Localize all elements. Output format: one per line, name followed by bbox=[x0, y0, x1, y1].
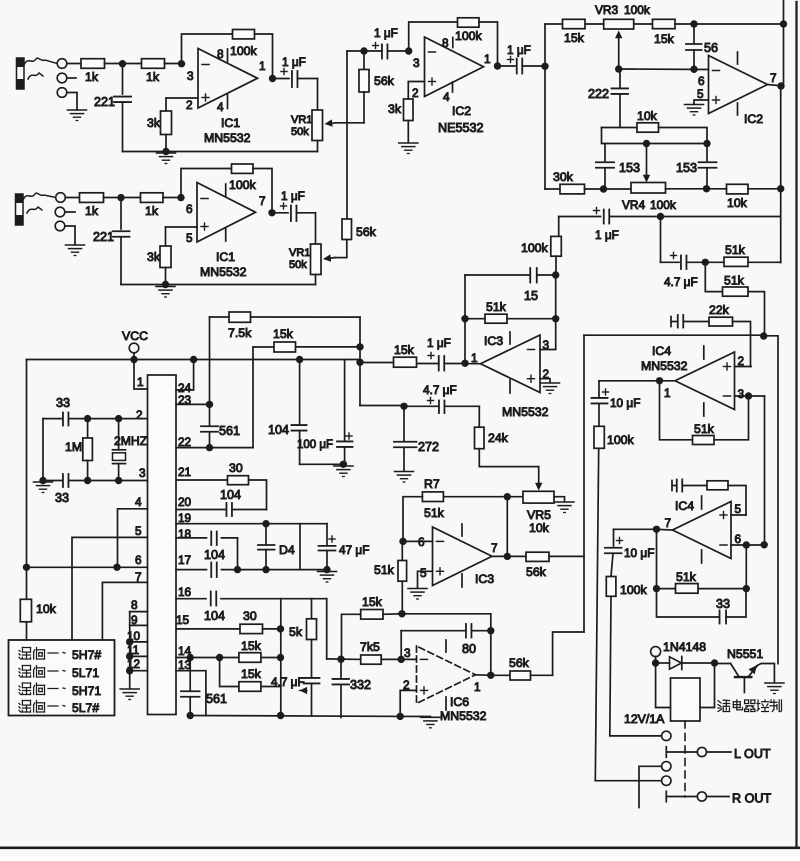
svg-text:3: 3 bbox=[543, 338, 550, 352]
terminal circle tip bbox=[57, 59, 67, 69]
svg-text:IC2: IC2 bbox=[744, 112, 763, 126]
resistor 30 (pin15) bbox=[240, 624, 263, 633]
svg-text:10k: 10k bbox=[637, 109, 658, 123]
potentiometer VR5 10k bbox=[523, 491, 554, 503]
node xtal top bbox=[115, 415, 122, 422]
wire bbox=[255, 34, 273, 79]
svg-text:VR3: VR3 bbox=[595, 3, 619, 17]
svg-text:153: 153 bbox=[676, 161, 697, 175]
terminal circle ring 2 bbox=[55, 207, 65, 217]
wire L-chain long vertical bbox=[610, 596, 662, 736]
svg-text:3: 3 bbox=[413, 56, 420, 70]
wire bbox=[263, 628, 281, 630]
arrow polarity bbox=[300, 687, 308, 694]
svg-text:7: 7 bbox=[259, 194, 266, 208]
feedback wire IC1a bbox=[182, 34, 233, 64]
wire bus bottom bbox=[553, 632, 584, 675]
resistor 51k (IC3a fb) bbox=[465, 318, 485, 320]
capacitor 56 bbox=[693, 24, 695, 44]
svg-text:56k: 56k bbox=[509, 656, 530, 670]
svg-text:1 μF: 1 μF bbox=[374, 26, 398, 40]
svg-text:104: 104 bbox=[220, 488, 241, 502]
resistor 100k (IC3a input) bbox=[551, 236, 562, 256]
svg-text:1 μF: 1 μF bbox=[282, 55, 306, 69]
svg-text:4.7 μF: 4.7 μF bbox=[664, 275, 698, 289]
wire 222 to 10k bbox=[602, 127, 638, 129]
node 7k5 left bbox=[337, 656, 344, 663]
wire 7.5k vertical bbox=[209, 317, 211, 425]
wire ch2 ground rail bbox=[121, 284, 316, 286]
node pin4 join bbox=[113, 564, 120, 571]
wire fb left bbox=[660, 381, 693, 440]
wire pin7 bbox=[102, 582, 147, 640]
svg-text:23: 23 bbox=[178, 393, 192, 407]
resistor 3k (ch1 to gnd) bbox=[165, 98, 167, 111]
resistor 100k (IC1b feedback) bbox=[232, 164, 254, 173]
op-amp IC4 (a) left-pointing bbox=[675, 352, 735, 410]
svg-text:MN5532: MN5532 bbox=[200, 265, 247, 279]
wire IC2b output bbox=[768, 85, 782, 86]
resistor 1M bbox=[87, 419, 89, 438]
svg-text:51k: 51k bbox=[724, 274, 745, 288]
node 51k row L bbox=[653, 585, 660, 592]
svg-text:7: 7 bbox=[135, 570, 142, 584]
svg-text:1 μF: 1 μF bbox=[427, 336, 451, 350]
svg-text:104: 104 bbox=[204, 548, 225, 562]
wire mix left bbox=[347, 50, 364, 52]
svg-text:5: 5 bbox=[135, 524, 142, 538]
wire pin21 bbox=[176, 479, 228, 481]
capacitor D4 bbox=[265, 524, 267, 545]
node rail 561 bbox=[187, 712, 194, 719]
svg-text:7: 7 bbox=[770, 71, 777, 85]
node 153R top bbox=[703, 140, 710, 147]
node mix2 b bbox=[356, 359, 363, 366]
node 51k pair bbox=[702, 259, 709, 266]
wire fb riser bbox=[506, 497, 508, 557]
wire corner bbox=[602, 128, 708, 144]
node D4 bottom bbox=[262, 566, 269, 573]
svg-text:56k: 56k bbox=[356, 225, 377, 239]
wire IC1a +input bbox=[166, 97, 198, 99]
svg-text:221: 221 bbox=[93, 230, 114, 244]
resistor 1k (ch2 series b) bbox=[121, 197, 141, 199]
svg-text:1 μF: 1 μF bbox=[595, 228, 619, 242]
wire ring stub bbox=[67, 77, 76, 79]
wire fb right riser bbox=[490, 631, 492, 676]
potentiometer VR3 100k bbox=[604, 19, 634, 29]
wire bbox=[261, 686, 281, 688]
svg-text:33: 33 bbox=[56, 396, 70, 410]
wire pin21 loop bbox=[249, 480, 267, 510]
wire right vertical (feedback bus) bbox=[780, 86, 782, 263]
wire VCC stem bbox=[133, 353, 135, 360]
wire bbox=[104, 197, 122, 199]
svg-text:3k: 3k bbox=[147, 116, 161, 130]
wire bbox=[555, 256, 557, 275]
wire R7 right bbox=[443, 496, 507, 498]
wire pin5 bbox=[72, 537, 148, 640]
ground (IC3a pin2) bbox=[541, 383, 560, 394]
wire VR1 bottom bbox=[317, 141, 319, 152]
svg-text:D4: D4 bbox=[279, 543, 295, 557]
wire vertical to 56k ch2 bbox=[346, 51, 348, 219]
wire IC4a pin3 node bbox=[735, 395, 749, 397]
tick IC3b top bbox=[461, 524, 463, 536]
diode 1N4148 bbox=[656, 662, 670, 664]
resistor 3k (IC2a) bbox=[404, 99, 414, 121]
node plus-line right bbox=[760, 332, 767, 339]
svg-text:56k: 56k bbox=[374, 74, 395, 88]
svg-text:4: 4 bbox=[443, 90, 450, 104]
node IC4a out bbox=[656, 377, 663, 384]
node ch2 rail bbox=[162, 281, 169, 288]
node 153R bottom bbox=[703, 185, 710, 192]
jack tip squiggle wire bbox=[24, 58, 57, 65]
wire bottom rail bbox=[190, 716, 430, 717]
wire 15k left bbox=[342, 614, 361, 659]
svg-text:R7: R7 bbox=[424, 477, 440, 491]
wire pin8-12 bus bbox=[129, 612, 131, 688]
wire to VR1 ch2 bbox=[315, 213, 317, 244]
svg-text:3k: 3k bbox=[147, 250, 161, 264]
terminal circle sleeve 2 bbox=[55, 221, 65, 231]
resistor 22k bbox=[709, 317, 733, 326]
tick IC3b bottom bbox=[461, 574, 463, 587]
op-amp IC6 dashed bbox=[417, 646, 476, 704]
wire bbox=[682, 662, 715, 664]
capacitor 10uF (IC4b out) bbox=[613, 529, 615, 546]
resistor 56k (ch2 mix) bbox=[342, 219, 352, 240]
svg-text:22k: 22k bbox=[709, 303, 730, 317]
svg-text:561: 561 bbox=[219, 424, 240, 438]
svg-text:8: 8 bbox=[131, 598, 138, 612]
svg-text:MN5532: MN5532 bbox=[440, 709, 487, 723]
svg-text:80: 80 bbox=[462, 642, 476, 656]
resistor 15k (tone a) bbox=[563, 19, 586, 28]
tick IC6 bottom bbox=[445, 697, 447, 710]
wire pin17 row bbox=[222, 569, 328, 571]
svg-text:NE5532: NE5532 bbox=[438, 121, 484, 135]
wire bbox=[698, 588, 746, 590]
svg-text:1k: 1k bbox=[145, 204, 159, 218]
wire VCC rail bbox=[27, 359, 360, 361]
wire 3k to gnd bbox=[407, 121, 409, 143]
node rail IC6 bbox=[397, 713, 404, 720]
op-amp IC2 (b) bbox=[709, 56, 768, 114]
wire 56k out bbox=[531, 674, 553, 676]
svg-text:33: 33 bbox=[55, 491, 69, 505]
capacitor 104 (pin20) bbox=[234, 509, 267, 511]
wire pin24 bbox=[176, 360, 194, 391]
wire 15k b bbox=[220, 658, 239, 687]
node IC2a output bbox=[494, 62, 501, 69]
jack ring squiggle wire bbox=[28, 73, 43, 79]
svg-text:47 μF: 47 μF bbox=[339, 543, 369, 557]
wire 7.5k to mix2 bbox=[251, 316, 361, 318]
resistor 51k (upper) bbox=[705, 261, 724, 263]
scan mark top right bbox=[783, 0, 785, 24]
svg-text:10k: 10k bbox=[727, 196, 748, 210]
svg-text:VR4: VR4 bbox=[622, 198, 646, 212]
wire IC4b pin5 bbox=[731, 514, 746, 516]
svg-text:51k: 51k bbox=[424, 506, 445, 520]
resistor 30 (pin21) bbox=[228, 476, 249, 485]
terminal circle ring bbox=[57, 73, 67, 83]
svg-text:104: 104 bbox=[204, 609, 225, 623]
wire IC2b - input row bbox=[619, 68, 709, 71]
node 561b bbox=[187, 654, 194, 661]
wire 24k to VR5 wiper bbox=[479, 449, 538, 485]
resistor 15k (IC3a in) bbox=[394, 357, 417, 367]
wire bbox=[707, 796, 730, 798]
svg-text:5: 5 bbox=[420, 566, 427, 580]
node mix X1 bbox=[360, 47, 367, 54]
node 1M bottom bbox=[84, 477, 91, 484]
wire sleeve to ground bbox=[67, 93, 77, 111]
node mix2 a bbox=[356, 343, 363, 350]
op-amp IC1 (a) bbox=[198, 49, 258, 109]
wire 15k row bbox=[253, 346, 274, 348]
svg-text:56k: 56k bbox=[526, 565, 547, 579]
svg-text:222: 222 bbox=[588, 87, 609, 101]
capacitor 1uF (IC3a out) bbox=[428, 355, 434, 357]
wire bbox=[659, 128, 708, 144]
ground (pin bus) bbox=[120, 689, 139, 700]
capacitor 4.7uF (mid) bbox=[428, 400, 434, 402]
svg-text:104: 104 bbox=[268, 423, 289, 437]
wire R7 left bbox=[403, 497, 422, 542]
svg-text:51k: 51k bbox=[486, 300, 507, 314]
node ch2-A bbox=[117, 194, 124, 201]
wire R out row bbox=[666, 796, 697, 798]
wire IC3b pin5 gnd bbox=[418, 571, 433, 588]
node diode right bbox=[711, 659, 718, 666]
svg-text:R OUT: R OUT bbox=[732, 792, 771, 806]
feedback wire IC1b bbox=[181, 169, 232, 198]
relay coil box bbox=[671, 678, 701, 721]
node ch2-B (IC1b inverting input) bbox=[177, 194, 184, 201]
wire bbox=[748, 261, 781, 263]
wire bbox=[401, 658, 416, 660]
node fb right bbox=[777, 185, 784, 192]
wire IC3a +in gnd bbox=[540, 379, 550, 382]
svg-text:4: 4 bbox=[217, 100, 224, 114]
node IC1a output bbox=[269, 75, 276, 82]
svg-text:5L7#: 5L7# bbox=[72, 701, 99, 715]
capacitor 1uF (post tone) bbox=[594, 210, 600, 212]
resistor 1k (ch1 series a) bbox=[81, 59, 105, 69]
VR4 wiper stem bbox=[646, 144, 648, 177]
resistor 56k (ch1 mix) bbox=[363, 51, 365, 70]
svg-text:1: 1 bbox=[664, 386, 671, 400]
svg-text:100k: 100k bbox=[230, 44, 258, 58]
capacitor 33 (bottom) bbox=[43, 480, 62, 482]
svg-text:7.5k: 7.5k bbox=[228, 326, 252, 340]
pin12 stub bbox=[130, 670, 148, 672]
svg-text:33: 33 bbox=[716, 597, 730, 611]
capacitor 1uF (IC2a input) bbox=[373, 45, 379, 47]
contact R-arm tick bbox=[665, 791, 667, 801]
relay armature dashed bbox=[684, 721, 686, 797]
svg-text:1: 1 bbox=[474, 680, 481, 694]
VR1 ch1 wiper wire bbox=[336, 122, 364, 124]
wire pin1 bbox=[134, 360, 148, 390]
wire 4.7uF row bbox=[360, 405, 404, 407]
wire IC4a plus line bbox=[584, 334, 764, 336]
resistor 7k5 bbox=[327, 658, 361, 661]
terminal 12V bbox=[651, 647, 661, 657]
resistor 7.5k bbox=[229, 312, 251, 322]
wire bbox=[707, 188, 727, 190]
svg-text:VR1: VR1 bbox=[289, 247, 310, 259]
svg-text:22: 22 bbox=[178, 435, 191, 449]
ground (IC2a 3k) bbox=[399, 143, 418, 154]
node 15k row bbox=[398, 610, 405, 617]
svg-text:6: 6 bbox=[735, 532, 742, 546]
svg-text:3k: 3k bbox=[388, 102, 402, 116]
wire relay left bbox=[656, 663, 671, 708]
wire mix bus vertical bbox=[583, 335, 585, 632]
svg-text:100 μF: 100 μF bbox=[297, 439, 333, 451]
pin4 tick IC2a bbox=[452, 82, 454, 92]
wire 5k riser bbox=[311, 599, 313, 619]
wire pin14 bbox=[176, 657, 239, 659]
node 51k row left bbox=[461, 315, 468, 322]
wire pin22 bbox=[176, 447, 253, 449]
node VCC rail bbox=[130, 356, 137, 363]
node 51k row R bbox=[743, 585, 750, 592]
node ch1-A bbox=[119, 60, 126, 67]
ground (crystal) bbox=[34, 482, 53, 493]
tick IC4a bottom bbox=[703, 403, 705, 416]
resistor 15k (pin22) bbox=[274, 342, 296, 352]
node 153L bottom bbox=[600, 185, 607, 192]
resistor 100k (R-chain) bbox=[598, 404, 600, 427]
feedback wire IC2a bbox=[409, 22, 458, 51]
svg-text:1N4148: 1N4148 bbox=[663, 640, 706, 654]
wire bbox=[666, 188, 707, 190]
wire right drop vertical bbox=[280, 599, 282, 716]
wire IC2a +input bbox=[408, 82, 424, 100]
wire R-chain long vertical bbox=[595, 448, 598, 780]
wire IC1b +input bbox=[166, 226, 198, 228]
wire left long vertical bbox=[26, 360, 28, 600]
svg-text:5L71: 5L71 bbox=[72, 666, 99, 680]
svg-text:IC3: IC3 bbox=[484, 334, 503, 348]
capacitor 561 (pin14) bbox=[189, 658, 191, 691]
wire pin22 riser bbox=[252, 347, 254, 448]
wire bbox=[479, 22, 498, 66]
wire IC4b out riser bbox=[656, 529, 658, 588]
box reverb unit bbox=[9, 640, 115, 716]
node 4.7 branch bbox=[657, 213, 664, 220]
wire IC4b out row bbox=[657, 528, 673, 531]
wire 56k ch1 bottom bbox=[363, 92, 365, 123]
svg-text:332: 332 bbox=[350, 678, 371, 692]
svg-text:10 μF: 10 μF bbox=[610, 396, 640, 410]
node IC1b output bbox=[268, 209, 275, 216]
node IC2a in bbox=[405, 47, 412, 54]
wire pin15 bbox=[176, 628, 240, 630]
ground (VR5) bbox=[555, 502, 574, 513]
node IC3b minus bbox=[399, 538, 406, 545]
svg-text:IC6: IC6 bbox=[450, 695, 469, 709]
resistor 10k (left) bbox=[20, 599, 31, 622]
svg-text:21: 21 bbox=[178, 465, 191, 479]
svg-text:18: 18 bbox=[178, 527, 192, 541]
ground (filters) bbox=[334, 466, 353, 477]
pin tick bottom b bbox=[225, 229, 227, 242]
wire pin16 corner bbox=[326, 599, 328, 659]
resistor fb IC4b bbox=[707, 481, 728, 490]
op-amp IC3 (a) left-pointing bbox=[481, 335, 541, 393]
svg-text:30k: 30k bbox=[553, 170, 574, 184]
node tone-cap bbox=[541, 63, 548, 70]
node pin18 join bbox=[234, 566, 241, 573]
svg-text:10k: 10k bbox=[529, 521, 550, 535]
right border line bbox=[795, 2, 797, 847]
resistor 1k (ch1 series b) bbox=[123, 63, 142, 65]
capacitor 22k input cap bbox=[671, 321, 677, 323]
jack2 ring squiggle bbox=[27, 207, 42, 213]
svg-text:10k: 10k bbox=[36, 602, 57, 616]
wire bbox=[253, 169, 272, 213]
svg-text:51k: 51k bbox=[374, 563, 395, 577]
svg-text:1k: 1k bbox=[85, 204, 99, 218]
svg-text:50k: 50k bbox=[289, 259, 307, 271]
wire mix2 vertical bbox=[359, 317, 361, 405]
wire 51k down bbox=[401, 581, 403, 614]
resistor 1k (ch2 series a) bbox=[80, 193, 104, 203]
resistor 3k (ch2 to gnd) bbox=[165, 227, 167, 246]
wire 80 left bbox=[400, 631, 402, 660]
contact circle L-out bbox=[697, 747, 706, 756]
resistor 30k bbox=[560, 184, 585, 194]
svg-text:221: 221 bbox=[94, 95, 115, 109]
wire to VR1 bbox=[317, 79, 319, 111]
svg-text:30: 30 bbox=[243, 609, 257, 623]
wire IC3a out bbox=[465, 363, 481, 365]
svg-text:IC1: IC1 bbox=[221, 116, 240, 130]
op-amp IC4 (b) left-pointing bbox=[673, 502, 732, 559]
node pin24 riser bbox=[190, 356, 197, 363]
svg-text:N5551: N5551 bbox=[727, 647, 763, 661]
svg-text:6: 6 bbox=[698, 74, 705, 88]
svg-text:30: 30 bbox=[229, 461, 243, 475]
svg-text:2: 2 bbox=[136, 408, 143, 422]
svg-text:100k: 100k bbox=[229, 178, 257, 192]
tick IC4b bottom bbox=[701, 550, 703, 563]
wire 33 left bbox=[42, 419, 44, 481]
ground (jack1 sleeve) bbox=[68, 110, 87, 121]
svg-text:8: 8 bbox=[442, 36, 449, 50]
svg-text:IC1: IC1 bbox=[216, 250, 235, 264]
node IC6 out bbox=[487, 672, 494, 679]
wire bbox=[540, 275, 556, 350]
svg-text:IC2: IC2 bbox=[452, 104, 471, 118]
svg-text:100k: 100k bbox=[620, 583, 648, 597]
capacitor 4.7uF (IC4a in) bbox=[661, 261, 680, 263]
resistor 15k (IC6 in) bbox=[361, 610, 383, 620]
svg-text:15: 15 bbox=[524, 289, 538, 303]
svg-text:2: 2 bbox=[412, 86, 419, 100]
node rail right bbox=[277, 712, 284, 719]
node VR5 left bbox=[504, 493, 511, 500]
wire contact C bbox=[639, 766, 662, 807]
svg-text:MN5532: MN5532 bbox=[204, 131, 251, 145]
node xtal bottom bbox=[115, 477, 122, 484]
